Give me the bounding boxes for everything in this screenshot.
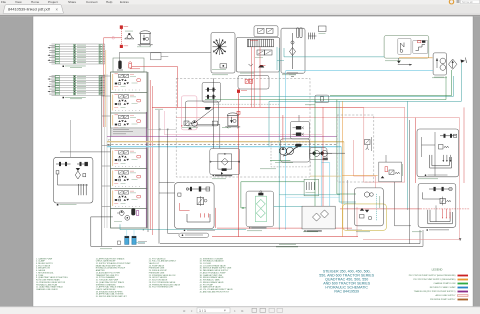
- svg-text:PIN DRIVE PUMP SUPPLY: PIN DRIVE PUMP SUPPLY: [430, 299, 456, 301]
- svg-text:RETURN TO TANK / SUMP: RETURN TO TANK / SUMP: [430, 286, 456, 289]
- svg-text:CHARGED LINE CHECK: CHARGED LINE CHECK: [36, 288, 59, 291]
- svg-text:1 / 1: 1 / 1: [199, 309, 206, 313]
- svg-text:PFC PISTON PUMP SUPPLY (REGULA: PFC PISTON PUMP SUPPLY (REGULATED): [413, 278, 455, 281]
- svg-text:Tell me wh: Tell me wh: [462, 2, 474, 4]
- svg-text:«: «: [183, 308, 186, 313]
- svg-text:Home: Home: [31, 0, 40, 4]
- svg-text:Share: Share: [68, 0, 77, 4]
- svg-text:»: »: [241, 308, 244, 313]
- svg-text:RAC 84419539: RAC 84419539: [334, 289, 359, 293]
- svg-text:Help: Help: [106, 0, 113, 4]
- svg-text:20. SELTED ENFORCED RAP LIFT: 20. SELTED ENFORCED RAP LIFT: [96, 295, 128, 298]
- svg-text:AXLE LUBE SUPPLY: AXLE LUBE SUPPLY: [436, 294, 457, 297]
- svg-text:84410539-linked pdf.pdf: 84410539-linked pdf.pdf: [8, 7, 51, 12]
- svg-text:45. AND TAG AND FRONT PIVOT: 45. AND TAG AND FRONT PIVOT: [200, 290, 230, 293]
- svg-text:View: View: [15, 0, 22, 4]
- svg-text:Connect: Connect: [86, 0, 98, 4]
- svg-text:File: File: [1, 0, 6, 4]
- svg-text:▾: ▾: [224, 309, 226, 313]
- svg-text:Project: Project: [48, 0, 58, 4]
- svg-text:TRAN FLOW (PFC PISTON PUMP SUP: TRAN FLOW (PFC PISTON PUMP SUPPLY): [414, 290, 456, 293]
- svg-text:PFC PISTON PUMP SUPPLY (HIGH P: PFC PISTON PUMP SUPPLY (HIGH PRESSURE): [409, 275, 456, 277]
- svg-text:CHARGE PUMP FLOW: CHARGE PUMP FLOW: [433, 282, 455, 285]
- svg-text:30. PILOT STEERING LEFT: 30. PILOT STEERING LEFT: [149, 287, 174, 289]
- svg-text:LEGEND: LEGEND: [432, 267, 443, 271]
- svg-text:Extras: Extras: [120, 0, 129, 4]
